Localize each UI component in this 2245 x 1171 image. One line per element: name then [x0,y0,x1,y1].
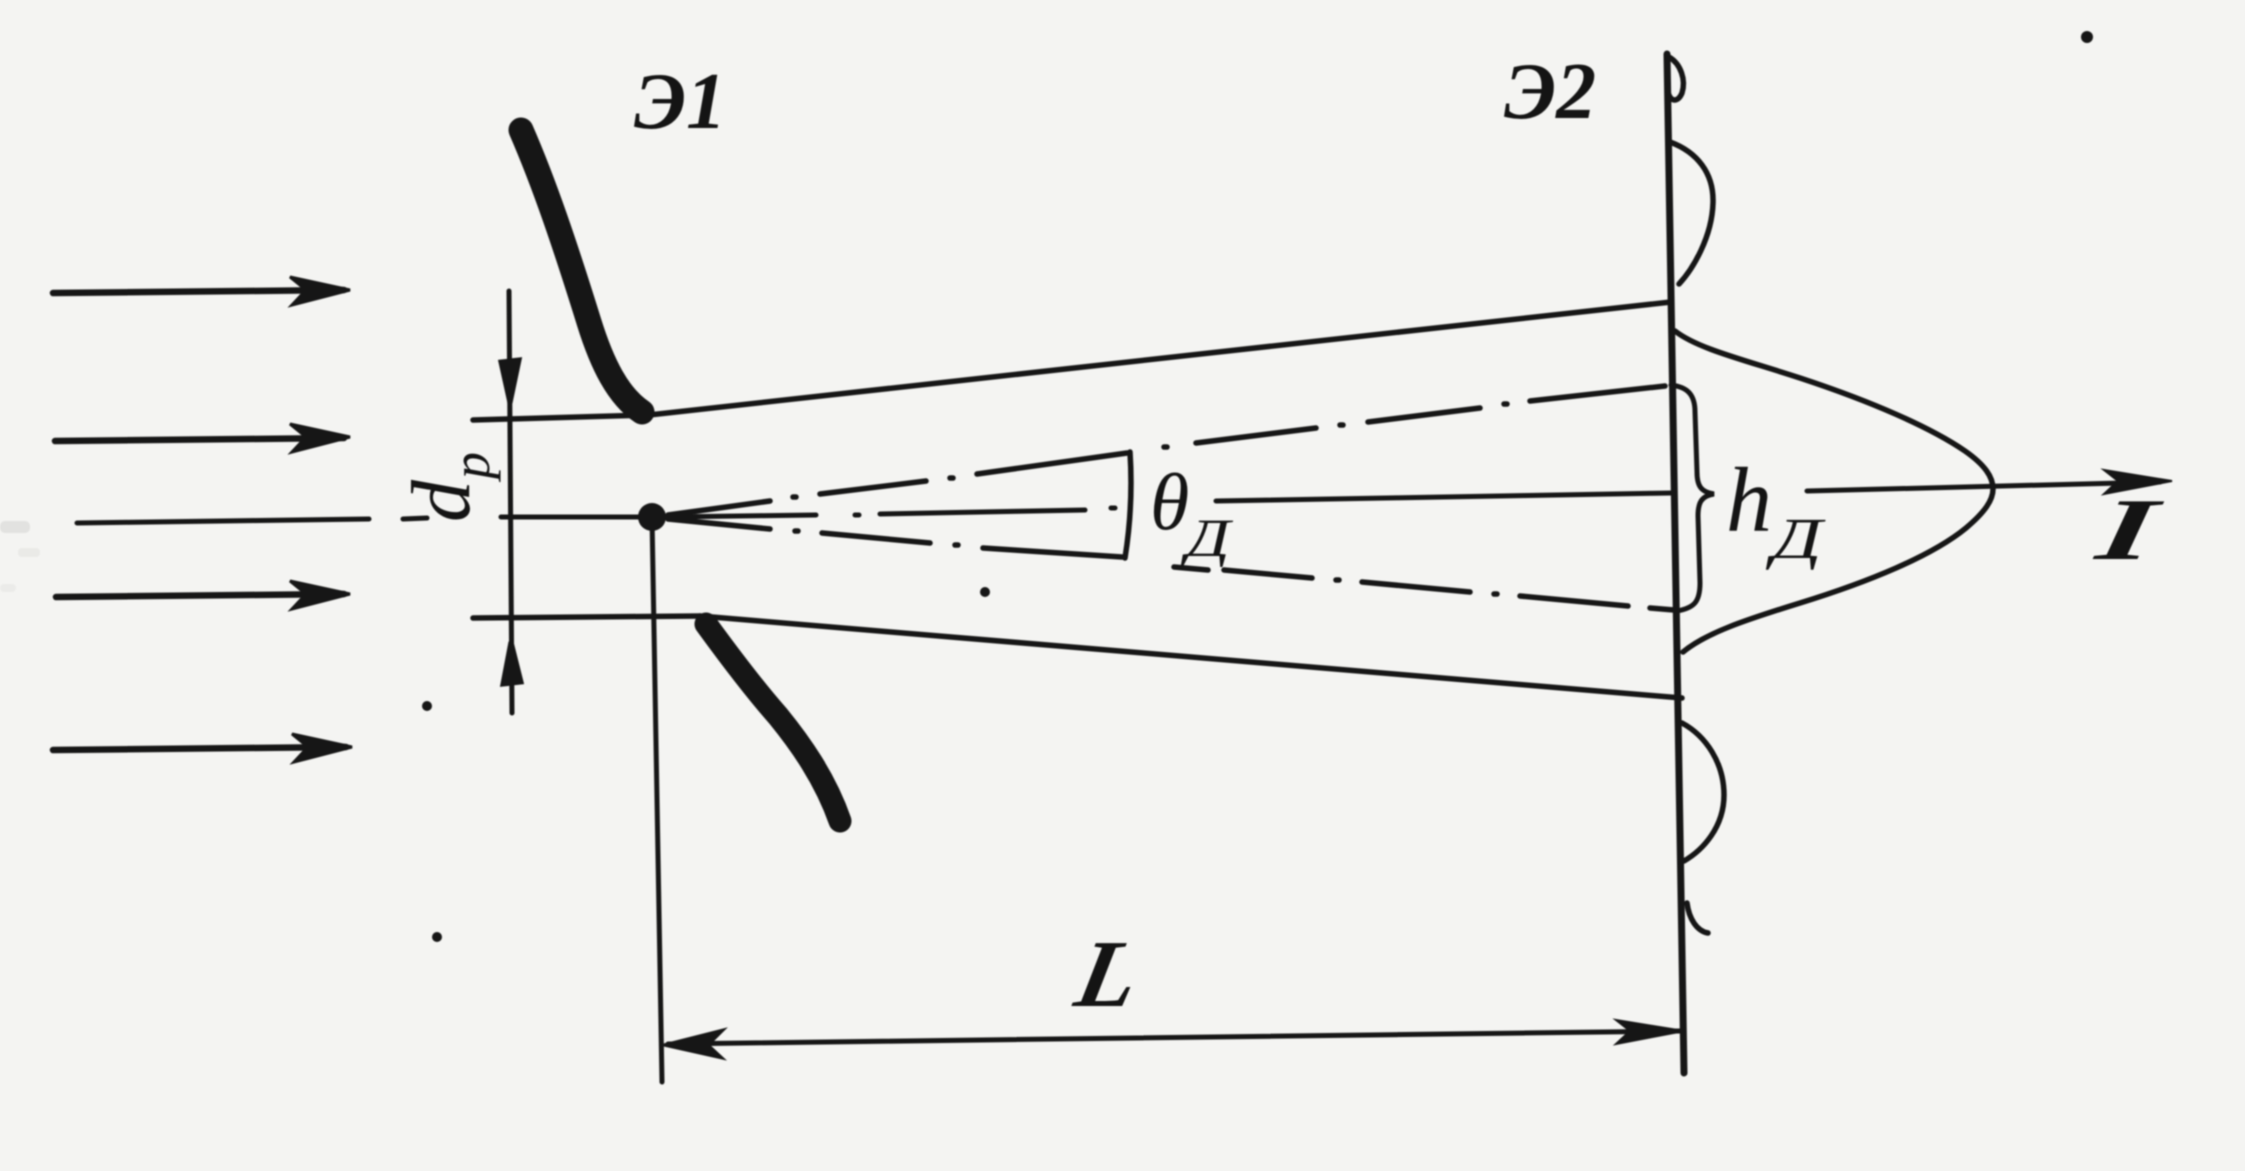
L dimension line [664,1030,1680,1058]
L right arrowhead [1616,1020,1684,1044]
screen Э2 plane line [1667,54,1684,1073]
aperture top edge [473,415,649,420]
svg-text:h: h [1726,449,1772,551]
arrowhead I [2104,470,2172,494]
diffracted beam upper edge [649,302,1671,415]
angle arc theta [1125,452,1131,558]
label d_p (rotated) [395,452,501,522]
axis segment through intensity lobe to arrow I [1807,482,2160,491]
svg-text:θ: θ [1150,459,1189,547]
aperture bottom edge [473,616,700,618]
intensity lower side lobe [1682,723,1724,861]
small hook at bottom of lower lobe [1687,903,1708,933]
screen Э1 upper wavy stroke [521,130,642,412]
svg-text:Э1: Э1 [634,58,726,146]
speck top right [2081,31,2093,43]
intensity central lobe [1675,331,1993,652]
svg-text:Э2: Э2 [1504,48,1596,136]
screen Э1 lower wavy stroke [706,624,840,821]
incident ray arrow 2 [55,424,350,452]
small loop at top of screen [1668,57,1683,100]
dimension line d (vertical with two arrowheads) [501,291,521,713]
incident ray arrow 1 [53,277,350,305]
incident ray arrow 4 [53,734,352,762]
speck near axis [980,587,990,597]
speck lower left [432,932,442,942]
upper dash-dot divergence line [668,386,1665,515]
svg-text:Д: Д [1180,508,1234,568]
speck left [422,701,432,711]
incident ray arrow 3 [56,581,350,609]
svg-text:р: р [441,452,501,483]
intensity upper side lobe [1670,142,1713,284]
diffracted beam lower edge [700,616,1682,698]
faint smudge left edge [0,521,30,533]
svg-text:Д: Д [1765,506,1826,571]
optical axis dash-dot (right of dot) [666,493,1671,517]
h bracket (brace) [1671,385,1714,611]
point source dot [638,503,666,531]
vertical reference line below dot [652,517,662,1082]
lower dash-dot divergence line [668,519,1674,610]
svg-text:d: d [395,479,488,522]
axis dash left of aperture [403,517,652,519]
axis ray segment (left) [77,519,369,523]
